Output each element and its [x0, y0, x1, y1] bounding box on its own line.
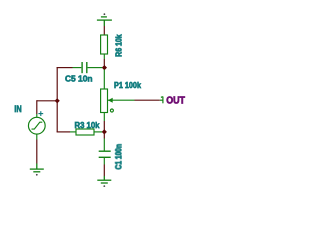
- wire: [103, 165, 105, 177]
- wire: [57, 131, 70, 133]
- wire: [56, 67, 58, 132]
- svg-text:P1 100k: P1 100k: [114, 80, 141, 90]
- polarity + mark: [38, 111, 43, 116]
- wire: [57, 67, 73, 69]
- node junction R6/C5/P1: [102, 65, 107, 70]
- node junction IN/C5/R3: [55, 98, 60, 103]
- svg-text:R3 10k: R3 10k: [75, 120, 100, 130]
- wire: [103, 70, 105, 90]
- ground (under source): [30, 164, 44, 176]
- wire: [103, 26, 105, 35]
- svg-text:OUT: OUT: [166, 96, 185, 107]
- resistor R6: [101, 35, 108, 59]
- ground (under C1): [97, 176, 111, 187]
- wire: [103, 134, 105, 139]
- wire: [37, 100, 57, 102]
- power supply V+: [97, 13, 112, 26]
- svg-text:IN: IN: [14, 104, 21, 114]
- wire: [36, 140, 38, 164]
- generator VG1 (IN source): [28, 114, 45, 140]
- capacitor C5: [73, 62, 103, 73]
- capacitor C1: [99, 139, 111, 165]
- wire: [36, 100, 38, 114]
- port OUT pin: [160, 97, 163, 104]
- wire (wiper to OUT): [135, 99, 160, 101]
- node junction R3/P1/C1: [102, 129, 107, 134]
- svg-text:C1 100n: C1 100n: [113, 144, 123, 170]
- wire: [103, 121, 105, 130]
- svg-text:C5 10n: C5 10n: [65, 74, 93, 84]
- resistor R3: [70, 129, 102, 135]
- potentiometer P1: [101, 89, 135, 121]
- wire: [103, 59, 105, 66]
- svg-text:R6 10k: R6 10k: [113, 34, 123, 57]
